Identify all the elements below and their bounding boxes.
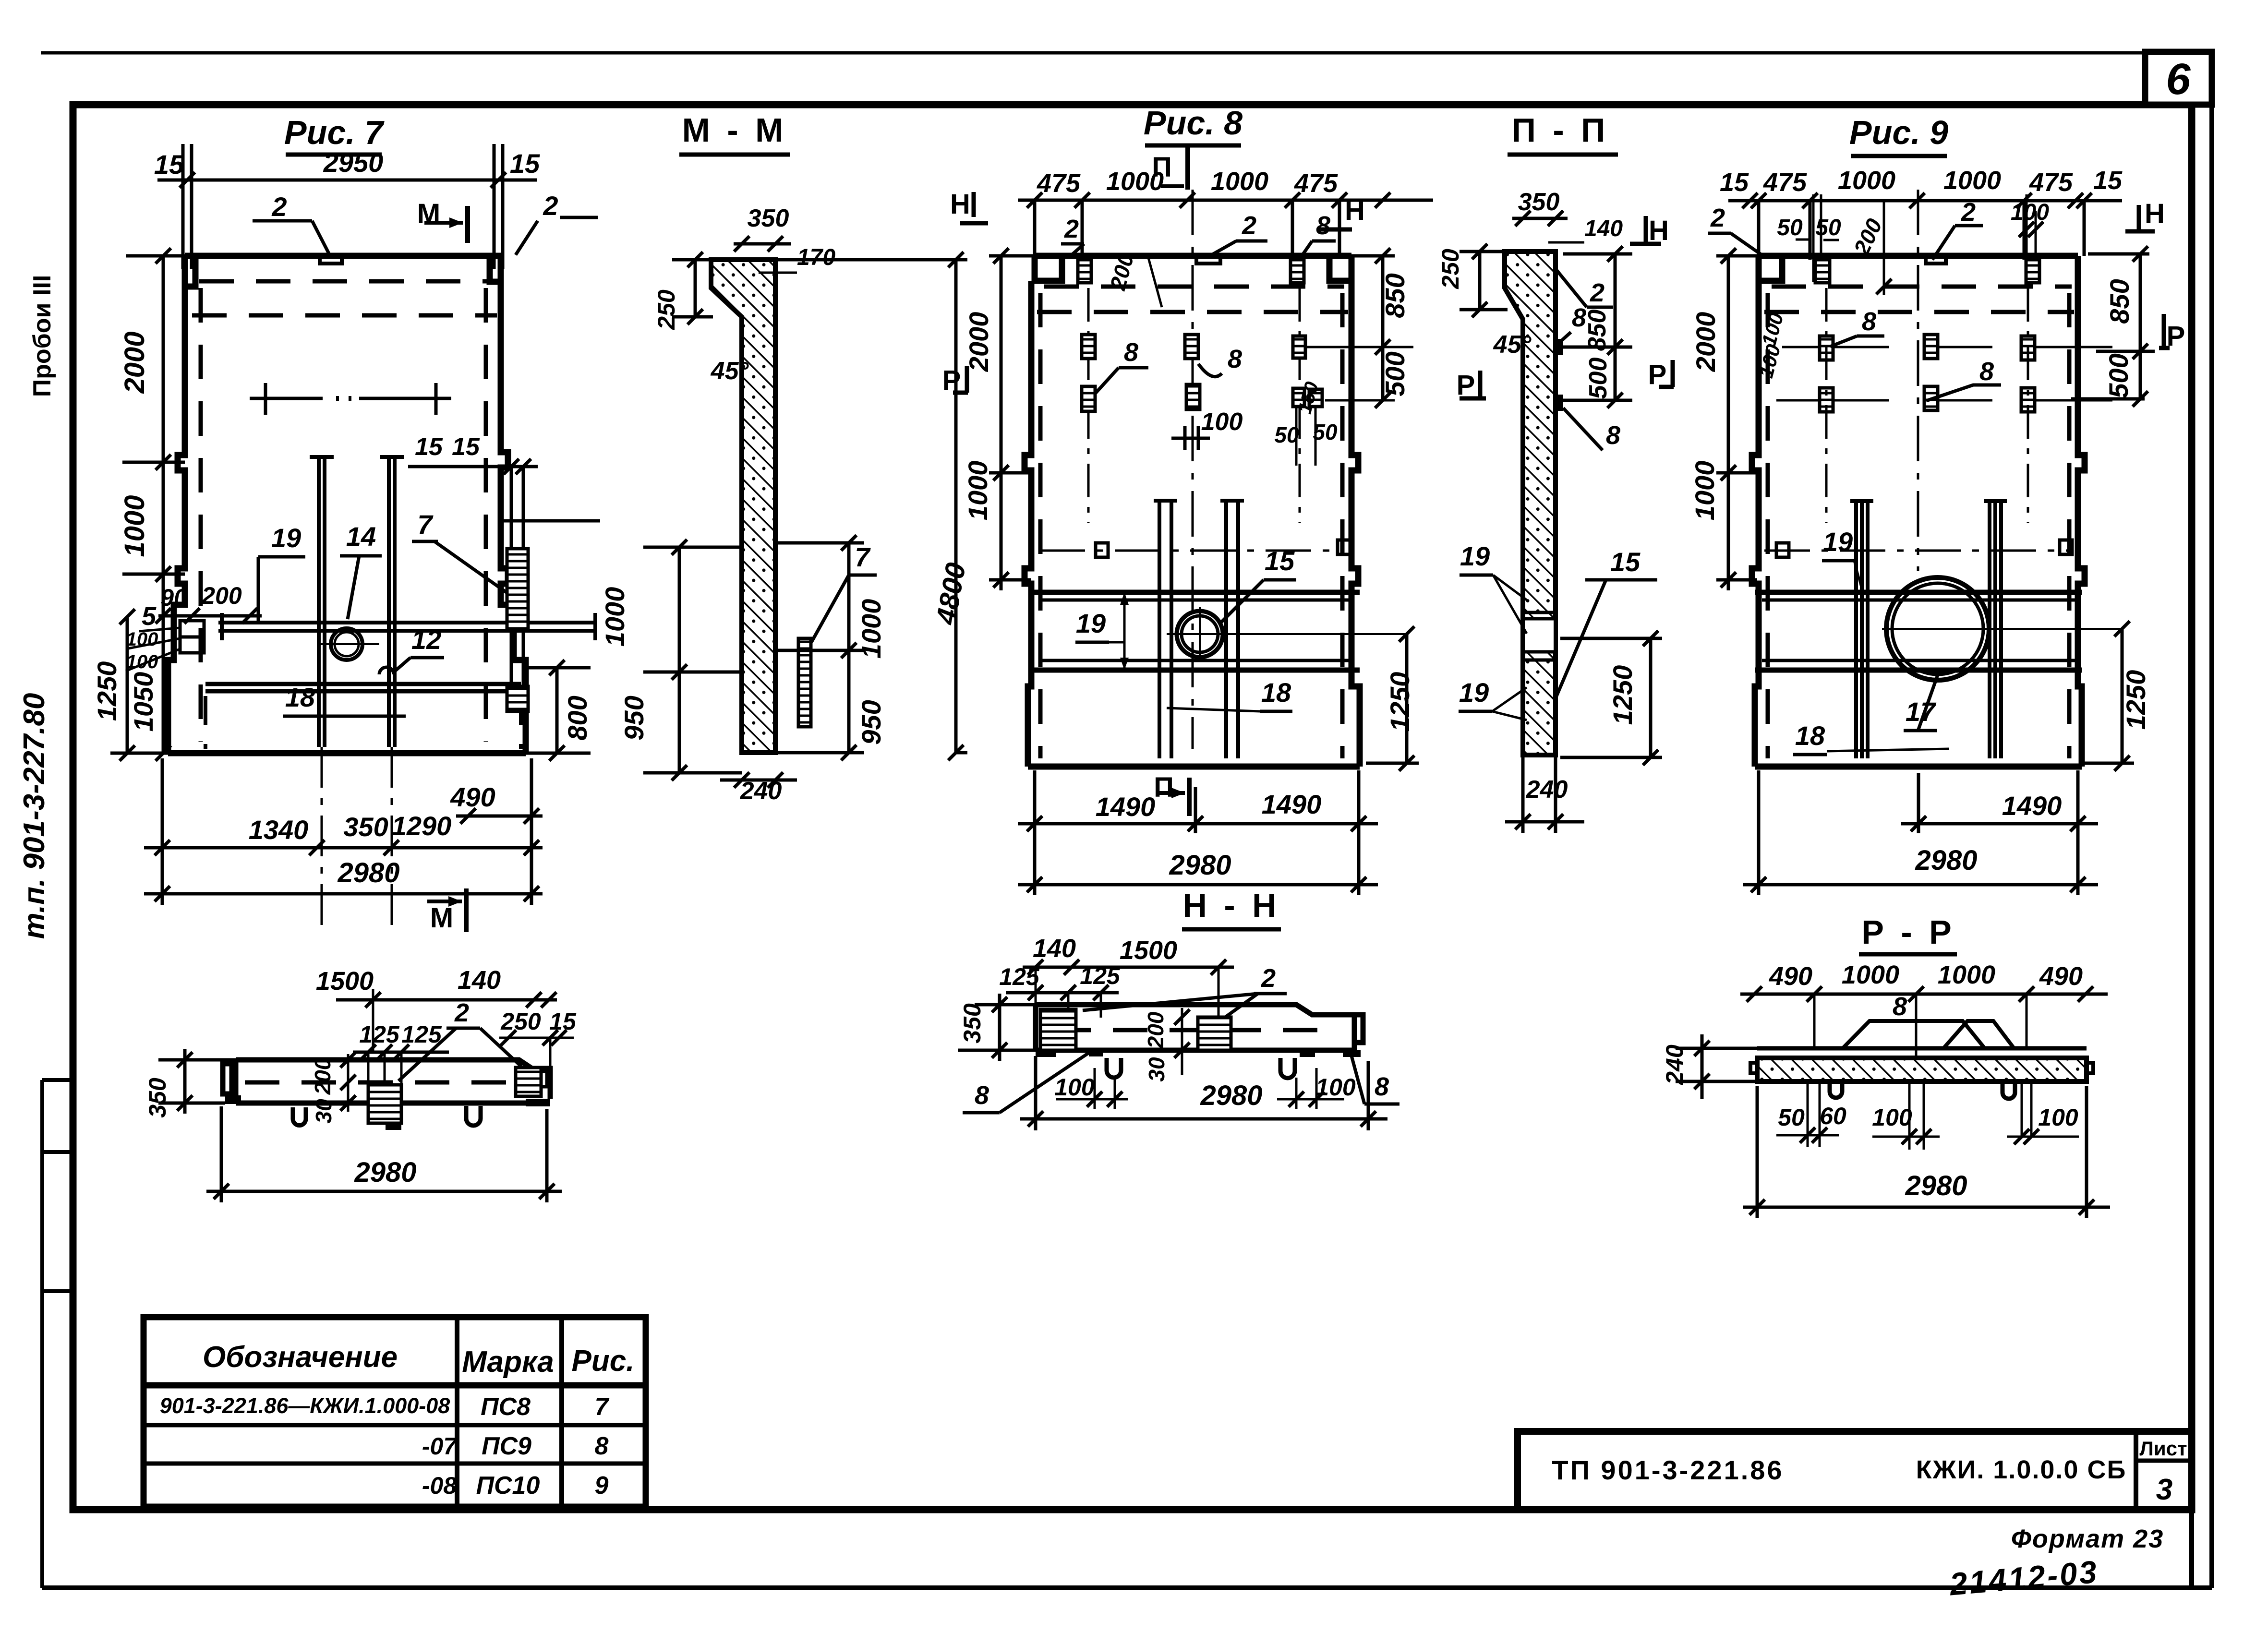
right edge	[501, 282, 526, 753]
svg-text:200: 200	[310, 1057, 335, 1095]
svg-text:850: 850	[2104, 279, 2135, 324]
top sleeves	[1815, 260, 1830, 283]
svg-text:2980: 2980	[1905, 1170, 1967, 1201]
svg-text:П: П	[1154, 772, 1174, 803]
svg-text:250: 250	[1437, 249, 1464, 289]
svg-text:45°: 45°	[711, 357, 749, 385]
svg-text:60: 60	[1820, 1103, 1846, 1129]
svg-text:140: 140	[1033, 934, 1076, 963]
svg-text:30: 30	[1144, 1057, 1169, 1082]
slab outline	[1036, 1005, 1363, 1050]
dashed hidden lines	[1037, 287, 1348, 758]
hole circle	[331, 628, 362, 660]
center axis mark	[250, 383, 451, 415]
svg-text:6: 6	[2166, 55, 2191, 104]
top dimension 15 2950 15	[157, 144, 537, 269]
svg-text:125: 125	[359, 1021, 400, 1048]
wall strip with concrete hatch	[711, 260, 775, 753]
svg-text:1000: 1000	[1211, 167, 1268, 196]
svg-text:490: 490	[1769, 962, 1812, 991]
svg-text:19: 19	[1823, 527, 1853, 557]
svg-text:100: 100	[1315, 1074, 1356, 1101]
svg-text:15: 15	[154, 149, 184, 180]
svg-text:1000: 1000	[1943, 166, 2001, 195]
mid horizontal axis	[1039, 550, 1344, 552]
svg-text:490: 490	[450, 782, 495, 812]
svg-text:100: 100	[1872, 1104, 1912, 1131]
svg-text:1490: 1490	[1262, 789, 1322, 819]
right dim 1250	[2084, 629, 2134, 763]
svg-text:Рис. 9: Рис. 9	[1849, 114, 1948, 151]
svg-text:Н: Н	[950, 189, 970, 220]
outer right border	[2209, 52, 2214, 1588]
svg-text:2: 2	[1064, 215, 1079, 243]
svg-text:350: 350	[343, 812, 388, 842]
top sleeves	[1078, 260, 1091, 283]
channels (triple lines)	[1850, 501, 2007, 758]
svg-text:15: 15	[510, 148, 540, 179]
svg-text:1000: 1000	[1842, 960, 1899, 989]
svg-text:950: 950	[856, 700, 886, 744]
svg-text:8: 8	[1316, 211, 1330, 240]
left edge	[168, 287, 185, 753]
svg-text:2980: 2980	[354, 1157, 416, 1188]
svg-text:19: 19	[1076, 608, 1106, 638]
svg-text:2000: 2000	[119, 331, 150, 394]
svg-text:2980: 2980	[1915, 845, 1977, 876]
horizontal leader rows	[1776, 347, 2112, 400]
svg-text:М: М	[430, 902, 453, 934]
svg-text:18: 18	[1261, 677, 1291, 708]
right dims 1000 950	[778, 543, 864, 753]
left binding column	[40, 1080, 44, 1588]
svg-text:2: 2	[1961, 198, 1976, 227]
left vertical dims	[110, 256, 185, 753]
svg-text:8: 8	[1979, 357, 1994, 386]
svg-text:1250: 1250	[92, 661, 122, 721]
svg-text:125: 125	[999, 963, 1040, 990]
svg-text:500: 500	[2103, 353, 2134, 398]
sleeve columns dash-dot	[1088, 288, 1300, 523]
svg-text:475: 475	[1037, 169, 1081, 198]
panel outline	[1025, 256, 1360, 767]
svg-text:12: 12	[411, 624, 441, 655]
top-left corner step	[185, 256, 195, 287]
svg-text:8: 8	[595, 1432, 609, 1460]
thin top rule	[41, 51, 2212, 55]
svg-text:ПС10: ПС10	[476, 1472, 540, 1500]
svg-text:ТП 901-3-221.86: ТП 901-3-221.86	[1552, 1455, 1784, 1485]
svg-text:2: 2	[1590, 278, 1604, 307]
bottom edge	[168, 750, 526, 756]
panel outline	[168, 256, 526, 753]
left dims 1000 950	[643, 547, 742, 773]
top-right corner step	[490, 256, 501, 282]
svg-text:Формат 23: Формат 23	[2011, 1524, 2164, 1553]
svg-text:1000: 1000	[1689, 461, 1720, 521]
svg-text:Рис. 8: Рис. 8	[1144, 104, 1243, 142]
svg-text:2000: 2000	[964, 312, 994, 372]
svg-text:Р - Р: Р - Р	[1861, 913, 1955, 951]
svg-text:100: 100	[2038, 1104, 2078, 1131]
svg-text:8: 8	[1124, 338, 1138, 367]
left small detail 5	[180, 621, 204, 637]
big hole	[1886, 577, 1989, 680]
svg-text:15: 15	[452, 433, 480, 461]
wall strip	[1505, 252, 1556, 755]
svg-text:250: 250	[653, 289, 680, 330]
4800 overall dim	[954, 260, 958, 753]
small arc detail 12	[379, 667, 394, 674]
svg-text:50: 50	[1778, 1104, 1805, 1131]
sleeves row2	[1082, 335, 1095, 359]
svg-text:350: 350	[748, 204, 789, 232]
slab with hatch	[1757, 1046, 2087, 1051]
svg-text:240: 240	[1526, 776, 1568, 804]
top center notch detail 2	[1196, 256, 1220, 264]
hidden dashed outline	[192, 281, 497, 742]
svg-text:500: 500	[1380, 351, 1410, 396]
main border	[73, 105, 2192, 1510]
svg-text:2: 2	[271, 192, 287, 222]
svg-text:250: 250	[500, 1008, 541, 1035]
dashed hidden	[1764, 287, 2074, 758]
svg-text:50: 50	[1777, 215, 1803, 240]
top centre notch detail 2	[320, 256, 342, 264]
svg-text:100: 100	[1054, 1074, 1095, 1101]
svg-text:1250: 1250	[2121, 670, 2151, 730]
svg-text:19: 19	[1459, 677, 1489, 708]
2 8 8 labels with tabs	[1556, 339, 1563, 355]
feet	[1036, 1050, 1056, 1057]
svg-text:8: 8	[1862, 307, 1876, 336]
svg-text:1000: 1000	[963, 461, 993, 521]
svg-text:2: 2	[1710, 204, 1725, 232]
svg-text:2980: 2980	[1169, 850, 1231, 881]
sleeve axes	[1826, 288, 2028, 523]
svg-text:1000: 1000	[1106, 167, 1164, 196]
svg-text:2980: 2980	[337, 857, 399, 888]
svg-text:901-3-221.86—КЖИ.1.000-08: 901-3-221.86—КЖИ.1.000-08	[160, 1393, 450, 1418]
hatched channel blocks	[368, 1085, 401, 1123]
mid axis	[1764, 550, 2072, 552]
svg-text:19: 19	[271, 523, 301, 553]
svg-text:2: 2	[1242, 211, 1256, 240]
right vertical dim 800	[526, 668, 591, 753]
svg-text:Обозначение: Обозначение	[203, 1341, 398, 1374]
svg-text:Рис. 7: Рис. 7	[284, 114, 385, 151]
dashed centerline	[245, 1080, 543, 1085]
svg-text:1000: 1000	[856, 599, 886, 659]
svg-text:350: 350	[959, 1003, 986, 1044]
svg-text:8: 8	[1375, 1072, 1389, 1101]
svg-text:П - П: П - П	[1512, 111, 1609, 149]
svg-text:19: 19	[1460, 541, 1490, 571]
svg-text:140: 140	[1584, 216, 1623, 241]
svg-text:2000: 2000	[1690, 312, 1721, 372]
svg-text:2: 2	[543, 191, 558, 221]
svg-text:-08: -08	[422, 1472, 457, 1499]
hole circle	[1177, 611, 1223, 657]
band lines	[1031, 592, 1360, 670]
svg-text:8: 8	[1606, 421, 1620, 450]
svg-text:45°: 45°	[1493, 331, 1532, 359]
svg-text:14: 14	[346, 521, 376, 552]
svg-text:Н: Н	[2145, 198, 2165, 229]
svg-text:1500: 1500	[316, 967, 374, 996]
svg-text:140: 140	[458, 966, 501, 995]
svg-text:-07: -07	[422, 1433, 458, 1460]
threaded rod detail 7 (ladder)	[507, 549, 528, 630]
slab outline	[223, 1060, 550, 1103]
horizontal rebar line 14	[218, 613, 595, 640]
svg-text:50: 50	[1815, 215, 1841, 240]
svg-text:1490: 1490	[1096, 792, 1156, 822]
svg-text:500: 500	[1584, 358, 1612, 399]
svg-text:М: М	[417, 198, 440, 229]
channel centerlines extended	[322, 747, 392, 934]
svg-text:1000: 1000	[600, 587, 630, 647]
svg-text:30: 30	[311, 1099, 336, 1124]
svg-text:2950: 2950	[323, 147, 384, 178]
svg-text:Р: Р	[1457, 370, 1475, 401]
svg-text:1500: 1500	[1120, 936, 1177, 965]
svg-text:7: 7	[595, 1393, 610, 1421]
svg-text:1250: 1250	[1607, 665, 1638, 725]
svg-text:7: 7	[417, 509, 434, 540]
right dims 850 500 + P mark	[2071, 254, 2155, 399]
1250 dim right	[1560, 638, 1662, 757]
svg-text:ПС8: ПС8	[481, 1393, 531, 1421]
top dims	[1728, 199, 2122, 203]
svg-text:КЖИ. 1.0.0.0 СБ: КЖИ. 1.0.0.0 СБ	[1916, 1455, 2127, 1484]
svg-text:1490: 1490	[2002, 791, 2062, 821]
outer bottom border	[42, 1585, 2212, 1590]
center axis	[1917, 190, 1919, 571]
svg-text:1000: 1000	[119, 495, 150, 557]
hooks	[1107, 1058, 1121, 1078]
svg-text:5: 5	[142, 602, 157, 631]
svg-text:1250: 1250	[1385, 672, 1415, 732]
svg-text:240: 240	[1661, 1044, 1688, 1085]
svg-text:8: 8	[1228, 345, 1242, 373]
hooks	[293, 1107, 306, 1126]
dashed centerline	[1056, 1028, 1339, 1032]
top center notch	[1926, 256, 1946, 264]
svg-text:Н: Н	[1345, 195, 1365, 226]
svg-text:2: 2	[454, 998, 469, 1027]
svg-text:1000: 1000	[1838, 166, 1895, 195]
svg-text:15: 15	[1610, 547, 1641, 577]
top dims 475 1000 1000 475	[1018, 199, 1433, 202]
svg-text:8: 8	[1893, 992, 1907, 1021]
svg-text:8: 8	[975, 1081, 989, 1110]
identification table	[144, 1317, 646, 1507]
svg-text:15: 15	[415, 433, 443, 461]
svg-text:15: 15	[549, 1008, 577, 1035]
svg-text:7: 7	[855, 542, 871, 572]
sleeves rows	[1820, 336, 1833, 360]
lower band lines	[205, 684, 521, 691]
right dim 1250	[1366, 634, 1419, 763]
channel rods (double verticals)	[310, 457, 404, 747]
svg-text:Марка: Марка	[462, 1345, 554, 1379]
svg-text:100: 100	[1201, 408, 1243, 436]
right dims 850 500	[1351, 256, 1395, 400]
svg-text:350: 350	[1518, 188, 1560, 216]
title block	[1518, 1431, 2192, 1510]
svg-text:1000: 1000	[1938, 960, 1995, 989]
svg-text:475: 475	[1294, 169, 1338, 198]
svg-text:15: 15	[1720, 168, 1749, 197]
svg-text:1340: 1340	[249, 815, 309, 845]
hatched blocks	[1040, 1009, 1076, 1050]
svg-text:490: 490	[2039, 962, 2083, 991]
svg-text:15: 15	[2093, 166, 2123, 195]
channels	[1154, 501, 1244, 758]
svg-text:2: 2	[1261, 964, 1276, 993]
svg-text:950: 950	[619, 696, 649, 740]
left dims	[1716, 256, 1759, 590]
svg-text:475: 475	[2029, 168, 2073, 197]
svg-text:475: 475	[1763, 168, 1807, 197]
svg-text:125: 125	[1080, 962, 1121, 989]
svg-text:200: 200	[201, 582, 242, 609]
svg-text:100: 100	[2011, 200, 2049, 225]
svg-text:15: 15	[1265, 546, 1295, 576]
svg-text:18: 18	[1795, 720, 1825, 751]
svg-text:9: 9	[595, 1472, 609, 1500]
svg-text:1290: 1290	[392, 811, 452, 841]
svg-text:850: 850	[1380, 273, 1410, 318]
svg-text:т.п. 901-3-227.80: т.п. 901-3-227.80	[18, 693, 51, 939]
850 500 dims	[1563, 254, 1632, 402]
svg-text:350: 350	[144, 1078, 171, 1118]
svg-text:18: 18	[285, 682, 315, 712]
svg-text:Н: Н	[1649, 215, 1669, 246]
svg-text:1050: 1050	[128, 672, 158, 732]
page number box 6	[2145, 52, 2212, 105]
center axis	[1192, 190, 1194, 749]
svg-text:Н - Н: Н - Н	[1182, 887, 1280, 924]
hooks	[1830, 1083, 1842, 1098]
bent rebar trapezoids	[1843, 1021, 2014, 1048]
svg-text:Рис.: Рис.	[572, 1344, 635, 1378]
band lines	[1755, 592, 2082, 670]
svg-text:Лист: Лист	[2139, 1437, 2187, 1460]
panel outline	[1752, 256, 2085, 767]
feet	[225, 1095, 241, 1104]
below verticals	[1808, 1081, 2031, 1150]
svg-text:200: 200	[1143, 1011, 1168, 1049]
svg-text:850: 850	[1583, 310, 1611, 351]
svg-text:2980: 2980	[1200, 1080, 1262, 1111]
svg-text:Пробои III: Пробои III	[28, 275, 56, 397]
svg-text:800: 800	[562, 696, 592, 740]
svg-text:М - М: М - М	[682, 111, 787, 149]
svg-text:170: 170	[797, 245, 835, 270]
svg-text:ПС9: ПС9	[482, 1432, 531, 1460]
sleeves row3	[1082, 386, 1095, 411]
svg-text:3: 3	[2156, 1473, 2172, 1506]
left dims 2000 1000	[989, 256, 1035, 590]
ladder insert detail	[798, 638, 811, 727]
